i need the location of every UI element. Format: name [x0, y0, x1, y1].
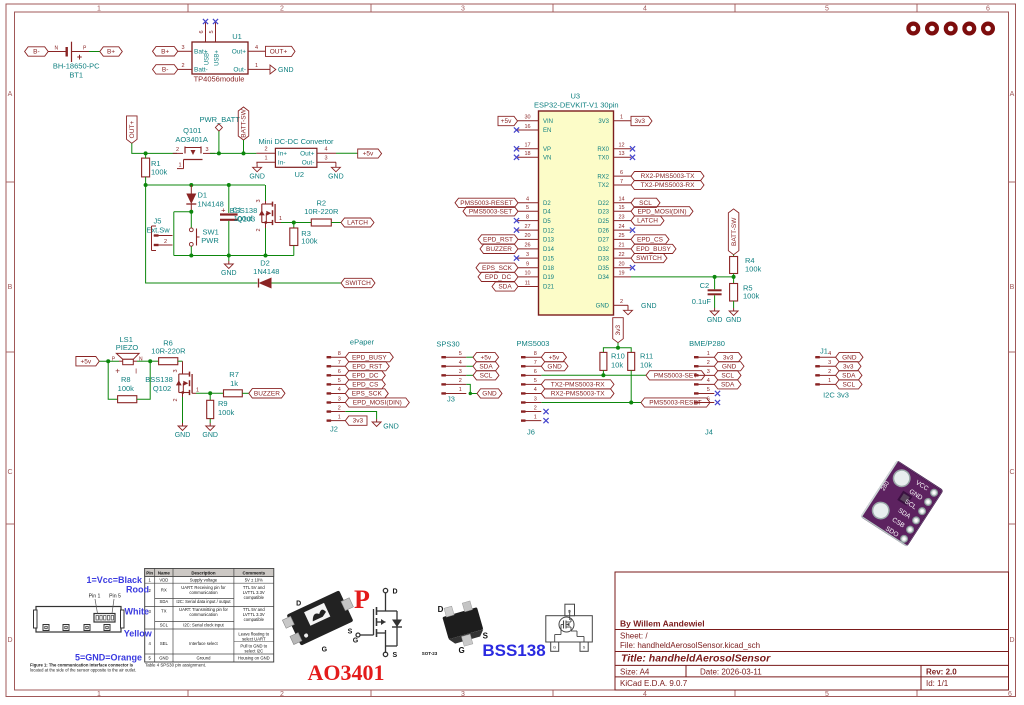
svg-text:Q103: Q103: [237, 214, 255, 223]
svg-text:BT1: BT1: [69, 71, 83, 80]
svg-text:U1: U1: [232, 32, 242, 41]
svg-text:R7: R7: [229, 370, 239, 379]
svg-text:OUT+: OUT+: [270, 48, 288, 55]
svg-text:2: 2: [173, 398, 179, 401]
svg-text:1N4148: 1N4148: [253, 267, 279, 276]
svg-text:J4: J4: [705, 428, 713, 437]
svg-text:Supply voltage: Supply voltage: [190, 578, 218, 583]
svg-text:3: 3: [173, 369, 179, 372]
svg-text:SOT-23: SOT-23: [422, 651, 438, 656]
svg-text:EPD_MOSI(DIN): EPD_MOSI(DIN): [637, 208, 686, 215]
svg-text:D13: D13: [543, 238, 555, 244]
svg-text:1: 1: [255, 63, 258, 69]
svg-text:100k: 100k: [151, 168, 168, 177]
svg-text:100k: 100k: [118, 384, 135, 393]
svg-text:S: S: [483, 632, 489, 641]
svg-text:D: D: [1009, 637, 1014, 644]
svg-text:EPD_RST: EPD_RST: [352, 363, 382, 370]
svg-text:3v3: 3v3: [635, 118, 646, 125]
svg-text:EPD_CS: EPD_CS: [352, 381, 379, 388]
svg-text:2: 2: [256, 228, 262, 231]
svg-text:1: 1: [264, 156, 267, 162]
svg-text:12: 12: [618, 143, 624, 149]
svg-text:20: 20: [524, 233, 530, 239]
svg-text:1: 1: [707, 351, 710, 357]
svg-text:B-: B-: [162, 67, 169, 74]
svg-text:GND: GND: [482, 391, 497, 398]
svg-text:0.1uF: 0.1uF: [692, 297, 712, 306]
svg-text:C2: C2: [700, 281, 710, 290]
svg-text:EPD_DC: EPD_DC: [485, 274, 512, 281]
svg-text:15: 15: [618, 205, 624, 211]
svg-text:Q102: Q102: [153, 384, 171, 393]
svg-text:PWR_BATT: PWR_BATT: [200, 115, 241, 124]
svg-text:Ground: Ground: [196, 655, 211, 660]
svg-text:Pin: Pin: [146, 571, 153, 576]
svg-text:EPD_CS: EPD_CS: [637, 237, 664, 244]
svg-text:SW1: SW1: [203, 227, 219, 236]
svg-text:Date: 2026-03-11: Date: 2026-03-11: [700, 667, 762, 676]
svg-text:10: 10: [524, 271, 530, 277]
svg-text:GND: GND: [707, 317, 723, 324]
svg-text:D: D: [568, 609, 571, 614]
svg-text:21: 21: [618, 243, 624, 249]
svg-text:USB-: USB-: [205, 51, 211, 65]
svg-text:6: 6: [986, 6, 990, 13]
svg-text:AO3401: AO3401: [308, 660, 385, 685]
svg-text:D22: D22: [598, 201, 610, 207]
svg-text:A: A: [1010, 91, 1015, 98]
svg-text:RX2-PMS5003-TX: RX2-PMS5003-TX: [641, 173, 695, 180]
svg-text:SEL: SEL: [160, 641, 169, 646]
svg-text:Yellow: Yellow: [124, 629, 153, 639]
svg-text:100k: 100k: [743, 292, 760, 301]
svg-text:2: 2: [176, 147, 179, 153]
svg-text:compatible: compatible: [244, 595, 265, 600]
svg-text:4: 4: [324, 147, 327, 153]
svg-text:EPD_DC: EPD_DC: [352, 372, 379, 379]
svg-text:8: 8: [526, 214, 529, 220]
svg-text:BSS138: BSS138: [482, 641, 545, 660]
svg-text:Description: Description: [191, 571, 215, 576]
svg-text:GND: GND: [641, 303, 657, 310]
svg-text:BATT-SW: BATT-SW: [241, 108, 248, 137]
svg-text:B: B: [8, 284, 13, 291]
svg-text:SDA: SDA: [160, 599, 169, 604]
svg-text:R11: R11: [640, 352, 653, 361]
svg-text:PMS5003-RESET: PMS5003-RESET: [460, 200, 512, 207]
svg-text:SCL: SCL: [842, 381, 855, 388]
svg-text:I2C: Serial clock input: I2C: Serial clock input: [183, 622, 224, 627]
svg-text:File: handheldAerosolSensor.ki: File: handheldAerosolSensor.kicad_sch: [620, 641, 760, 650]
svg-text:RX2: RX2: [597, 174, 609, 180]
svg-text:SDA: SDA: [842, 372, 856, 379]
svg-text:B+: B+: [107, 49, 115, 56]
svg-text:SCL: SCL: [160, 622, 169, 627]
svg-text:SDA: SDA: [498, 284, 512, 291]
svg-text:J1: J1: [820, 347, 828, 356]
svg-text:Rood: Rood: [126, 584, 149, 594]
svg-text:4: 4: [643, 6, 647, 13]
svg-text:18: 18: [524, 151, 530, 157]
svg-text:22: 22: [618, 252, 624, 258]
svg-text:1: 1: [178, 163, 181, 169]
svg-text:Out+: Out+: [300, 150, 314, 157]
svg-text:In-: In-: [278, 159, 286, 166]
svg-text:BSS138: BSS138: [145, 375, 173, 384]
svg-text:8: 8: [338, 351, 341, 357]
svg-text:5: 5: [707, 387, 710, 393]
svg-text:C: C: [1009, 469, 1014, 476]
svg-text:23: 23: [618, 214, 624, 220]
svg-text:GND: GND: [328, 173, 344, 180]
svg-text:Ext.Sw: Ext.Sw: [146, 226, 170, 235]
svg-text:In+: In+: [278, 150, 287, 157]
svg-text:GND: GND: [722, 363, 737, 370]
svg-text:5: 5: [459, 351, 462, 357]
svg-text:SDA: SDA: [721, 381, 735, 388]
svg-text:4: 4: [526, 197, 529, 203]
svg-text:6: 6: [620, 170, 623, 176]
svg-text:100k: 100k: [745, 265, 762, 274]
svg-text:J2: J2: [330, 425, 338, 434]
svg-text:communication: communication: [189, 612, 218, 617]
svg-text:1k: 1k: [230, 379, 238, 388]
svg-text:5: 5: [526, 205, 529, 211]
svg-text:3: 3: [707, 369, 710, 375]
svg-text:24: 24: [618, 224, 624, 230]
svg-text:D34: D34: [598, 275, 610, 281]
svg-text:D: D: [7, 637, 12, 644]
svg-text:1: 1: [196, 387, 199, 393]
svg-text:PMS5003-SET: PMS5003-SET: [654, 372, 697, 379]
svg-text:Id: 1/1: Id: 1/1: [926, 679, 949, 688]
svg-text:+5v: +5v: [480, 354, 491, 361]
svg-text:N: N: [54, 46, 58, 52]
svg-text:6: 6: [199, 30, 205, 33]
svg-text:3v3: 3v3: [843, 363, 854, 370]
svg-text:5: 5: [825, 6, 829, 13]
svg-text:100k: 100k: [301, 237, 318, 246]
svg-text:SWITCH: SWITCH: [636, 255, 662, 262]
svg-text:4: 4: [707, 378, 710, 384]
svg-text:Name: Name: [158, 571, 171, 576]
svg-text:EPD_BUSY: EPD_BUSY: [636, 246, 671, 253]
svg-text:VP: VP: [543, 147, 551, 153]
svg-text:13: 13: [618, 151, 624, 157]
svg-text:GND: GND: [221, 270, 237, 277]
svg-text:D1: D1: [198, 191, 208, 200]
svg-text:J6: J6: [527, 428, 535, 437]
svg-text:D19: D19: [543, 275, 555, 281]
svg-text:R2: R2: [317, 198, 327, 207]
svg-text:J5: J5: [154, 217, 162, 226]
svg-text:Size: A4: Size: A4: [620, 667, 650, 676]
svg-text:3: 3: [534, 396, 537, 402]
svg-text:AO3401A: AO3401A: [175, 135, 208, 144]
svg-text:2: 2: [181, 63, 184, 69]
svg-text:1: 1: [338, 414, 341, 420]
svg-text:16: 16: [524, 124, 530, 130]
svg-text:1: 1: [279, 216, 282, 222]
svg-text:Mini DC-DC Convertor: Mini DC-DC Convertor: [258, 137, 334, 146]
svg-text:located at the side of the sen: located at the side of the sensor opposi…: [30, 668, 136, 673]
svg-text:I2C 3v3: I2C 3v3: [823, 391, 849, 400]
svg-text:B+: B+: [161, 48, 169, 55]
svg-text:3v3: 3v3: [723, 354, 734, 361]
svg-text:TX0: TX0: [598, 156, 610, 162]
svg-text:VN: VN: [543, 156, 551, 162]
svg-text:Pin 1: Pin 1: [89, 593, 101, 599]
svg-text:G: G: [322, 646, 328, 653]
svg-text:P: P: [354, 585, 370, 614]
svg-text:2: 2: [620, 299, 623, 305]
svg-text:Housing on GND: Housing on GND: [238, 655, 270, 660]
svg-text:LATCH: LATCH: [637, 218, 658, 225]
svg-text:19: 19: [618, 271, 624, 277]
svg-text:3: 3: [526, 252, 529, 258]
svg-text:B-: B-: [33, 49, 40, 56]
svg-text:20: 20: [618, 262, 624, 268]
svg-text:PWR: PWR: [201, 236, 219, 245]
svg-text:RX: RX: [161, 588, 167, 593]
svg-text:1: 1: [459, 387, 462, 393]
svg-text:D25: D25: [598, 219, 610, 225]
svg-text:3: 3: [461, 6, 465, 13]
svg-text:GND: GND: [547, 363, 562, 370]
svg-text:5: 5: [534, 378, 537, 384]
svg-text:BME/P280: BME/P280: [689, 339, 725, 348]
svg-text:2: 2: [338, 405, 341, 411]
svg-text:VIN: VIN: [543, 119, 553, 125]
svg-text:3: 3: [324, 156, 327, 162]
svg-text:Batt-: Batt-: [194, 67, 208, 74]
svg-text:6: 6: [534, 369, 537, 375]
svg-text:TX: TX: [161, 609, 167, 614]
svg-text:4: 4: [338, 387, 341, 393]
svg-text:S: S: [583, 645, 586, 650]
svg-text:RX2-PMS5003-TX: RX2-PMS5003-TX: [551, 391, 605, 398]
svg-text:D15: D15: [543, 256, 555, 262]
svg-text:ESP32-DEVKIT-V1 30pin: ESP32-DEVKIT-V1 30pin: [534, 101, 619, 110]
svg-text:D21: D21: [543, 285, 555, 291]
svg-text:White: White: [125, 607, 150, 617]
svg-text:14: 14: [618, 197, 624, 203]
svg-text:3: 3: [459, 369, 462, 375]
svg-text:S: S: [393, 652, 398, 659]
svg-text:TX2: TX2: [598, 183, 610, 189]
svg-text:G: G: [458, 646, 464, 655]
svg-text:5V ± 10%: 5V ± 10%: [245, 578, 263, 583]
svg-text:25: 25: [618, 233, 624, 239]
svg-text:EPS_SCK: EPS_SCK: [482, 265, 513, 272]
svg-text:+5v: +5v: [501, 118, 512, 125]
svg-text:select I2C: select I2C: [244, 649, 263, 654]
svg-text:EPD_RST: EPD_RST: [483, 237, 513, 244]
svg-text:BH-18650-PC: BH-18650-PC: [53, 62, 100, 71]
svg-text:1: 1: [620, 115, 623, 121]
svg-text:SPS30: SPS30: [436, 339, 459, 348]
svg-text:TP4056module: TP4056module: [194, 75, 245, 84]
svg-text:3: 3: [256, 199, 262, 202]
svg-text:GND: GND: [175, 432, 191, 439]
svg-text:10k: 10k: [640, 360, 652, 369]
svg-text:SCL: SCL: [721, 372, 734, 379]
svg-text:1: 1: [534, 414, 537, 420]
svg-text:Table 4 SPS30 pin assignment.: Table 4 SPS30 pin assignment.: [145, 662, 206, 667]
svg-text:11: 11: [525, 280, 531, 286]
svg-text:PMS5003-SET: PMS5003-SET: [469, 208, 512, 215]
svg-text:Title: handheldAerosolSensor: Title: handheldAerosolSensor: [621, 653, 771, 665]
svg-text:17: 17: [524, 143, 530, 149]
svg-text:OUT+: OUT+: [129, 121, 136, 139]
svg-text:Interface select: Interface select: [189, 641, 218, 646]
svg-text:BATT-SW: BATT-SW: [731, 217, 738, 246]
svg-text:BUZZER: BUZZER: [486, 246, 512, 253]
svg-text:3v3: 3v3: [353, 418, 364, 425]
svg-text:3v3: 3v3: [615, 325, 622, 336]
svg-text:LATCH: LATCH: [347, 220, 368, 227]
svg-text:PIEZO: PIEZO: [116, 343, 139, 352]
svg-text:U2: U2: [295, 170, 305, 179]
svg-text:D33: D33: [598, 256, 610, 262]
svg-text:D27: D27: [598, 238, 610, 244]
svg-text:SWITCH: SWITCH: [345, 280, 371, 287]
svg-text:+5v: +5v: [549, 354, 560, 361]
svg-text:R9: R9: [218, 399, 228, 408]
svg-text:3: 3: [828, 360, 831, 366]
svg-text:2: 2: [264, 147, 267, 153]
svg-text:1N4148: 1N4148: [198, 199, 224, 208]
svg-text:10R-220R: 10R-220R: [151, 347, 186, 356]
svg-text:I: I: [135, 368, 137, 375]
svg-text:5: 5: [209, 30, 215, 33]
svg-text:3: 3: [461, 691, 465, 698]
svg-text:EPD_BUSY: EPD_BUSY: [352, 354, 387, 361]
svg-text:4: 4: [459, 360, 462, 366]
svg-text:6: 6: [338, 369, 341, 375]
svg-text:4: 4: [255, 45, 258, 51]
svg-text:GND: GND: [726, 317, 742, 324]
svg-text:D23: D23: [598, 210, 610, 216]
svg-text:compatible: compatible: [244, 617, 265, 622]
svg-text:+: +: [77, 52, 82, 62]
svg-text:+: +: [221, 205, 226, 214]
svg-text:Out-: Out-: [302, 159, 315, 166]
svg-text:2: 2: [828, 369, 831, 375]
svg-text:J3: J3: [447, 394, 455, 403]
svg-text:GND: GND: [249, 173, 265, 180]
svg-text:D26: D26: [598, 228, 610, 234]
svg-text:TX2-PMS5003-RX: TX2-PMS5003-RX: [551, 381, 605, 388]
svg-text:USB+: USB+: [215, 50, 221, 66]
svg-text:SDA: SDA: [479, 363, 493, 370]
svg-text:B: B: [1010, 284, 1015, 291]
svg-text:6: 6: [707, 396, 710, 402]
svg-text:GND: GND: [278, 67, 294, 74]
svg-text:2: 2: [280, 691, 284, 698]
svg-text:GND: GND: [842, 354, 857, 361]
svg-text:4: 4: [828, 351, 831, 357]
svg-text:KiCad E.D.A. 9.0.7: KiCad E.D.A. 9.0.7: [620, 679, 688, 688]
svg-text:By Willem Aandewiel: By Willem Aandewiel: [620, 619, 705, 629]
svg-text:TX2-PMS5003-RX: TX2-PMS5003-RX: [641, 182, 695, 189]
svg-text:U3: U3: [571, 91, 581, 100]
svg-text:10k: 10k: [611, 360, 623, 369]
svg-text:SCL: SCL: [639, 200, 652, 207]
svg-text:Comments: Comments: [242, 571, 265, 576]
svg-text:Out-: Out-: [233, 67, 246, 74]
svg-text:7: 7: [338, 360, 341, 366]
svg-text:100k: 100k: [218, 408, 235, 417]
svg-text:D2: D2: [543, 201, 551, 207]
svg-text:ePaper: ePaper: [350, 337, 375, 346]
svg-text:RX0: RX0: [597, 147, 609, 153]
svg-text:GND: GND: [596, 304, 610, 310]
svg-text:3: 3: [205, 147, 208, 153]
svg-text:Sheet: /: Sheet: /: [620, 632, 648, 641]
svg-text:1: 1: [828, 378, 831, 384]
svg-text:4: 4: [643, 691, 647, 698]
svg-text:GND: GND: [383, 424, 399, 431]
svg-text:Out+: Out+: [232, 49, 246, 56]
svg-text:10R-220R: 10R-220R: [304, 207, 339, 216]
svg-text:+5v: +5v: [81, 358, 92, 365]
svg-text:27: 27: [524, 224, 530, 230]
svg-text:1: 1: [97, 6, 101, 13]
svg-text:+5v: +5v: [363, 151, 374, 158]
svg-text:D: D: [393, 588, 398, 595]
svg-text:2: 2: [534, 405, 537, 411]
svg-text:5: 5: [338, 378, 341, 384]
svg-text:communication: communication: [189, 590, 218, 595]
svg-text:3: 3: [338, 396, 341, 402]
svg-text:G: G: [353, 637, 359, 644]
svg-text:GND: GND: [159, 655, 168, 660]
svg-text:D5: D5: [543, 219, 551, 225]
svg-text:D18: D18: [543, 266, 555, 272]
svg-text:D: D: [438, 605, 444, 614]
svg-text:D14: D14: [543, 247, 555, 253]
svg-text:3V3: 3V3: [598, 119, 609, 125]
svg-text:I2C: Serial data input / outpu: I2C: Serial data input / output: [176, 599, 231, 604]
svg-text:+: +: [115, 366, 120, 375]
svg-text:5=GND=Orange: 5=GND=Orange: [75, 653, 142, 663]
svg-text:5: 5: [825, 691, 829, 698]
svg-text:D35: D35: [598, 266, 610, 272]
svg-text:PMS5003-RESET: PMS5003-RESET: [649, 400, 701, 407]
svg-text:2: 2: [280, 6, 284, 13]
svg-text:D2: D2: [260, 258, 270, 267]
svg-text:3: 3: [181, 45, 184, 51]
svg-text:select UART: select UART: [242, 637, 266, 642]
svg-text:C: C: [7, 469, 12, 476]
svg-text:9: 9: [526, 262, 529, 268]
svg-text:7: 7: [534, 360, 537, 366]
svg-text:7: 7: [620, 179, 623, 185]
svg-text:4: 4: [534, 387, 537, 393]
svg-text:A: A: [8, 91, 13, 98]
svg-text:26: 26: [524, 243, 530, 249]
svg-text:EPS_SCK: EPS_SCK: [352, 391, 383, 398]
svg-text:G: G: [553, 645, 556, 650]
svg-text:VDD: VDD: [159, 578, 168, 583]
svg-text:EPD_MOSI(DIN): EPD_MOSI(DIN): [353, 400, 402, 407]
svg-text:D4: D4: [543, 210, 551, 216]
svg-text:EN: EN: [543, 128, 551, 134]
svg-text:2: 2: [707, 360, 710, 366]
svg-text:8: 8: [534, 351, 537, 357]
